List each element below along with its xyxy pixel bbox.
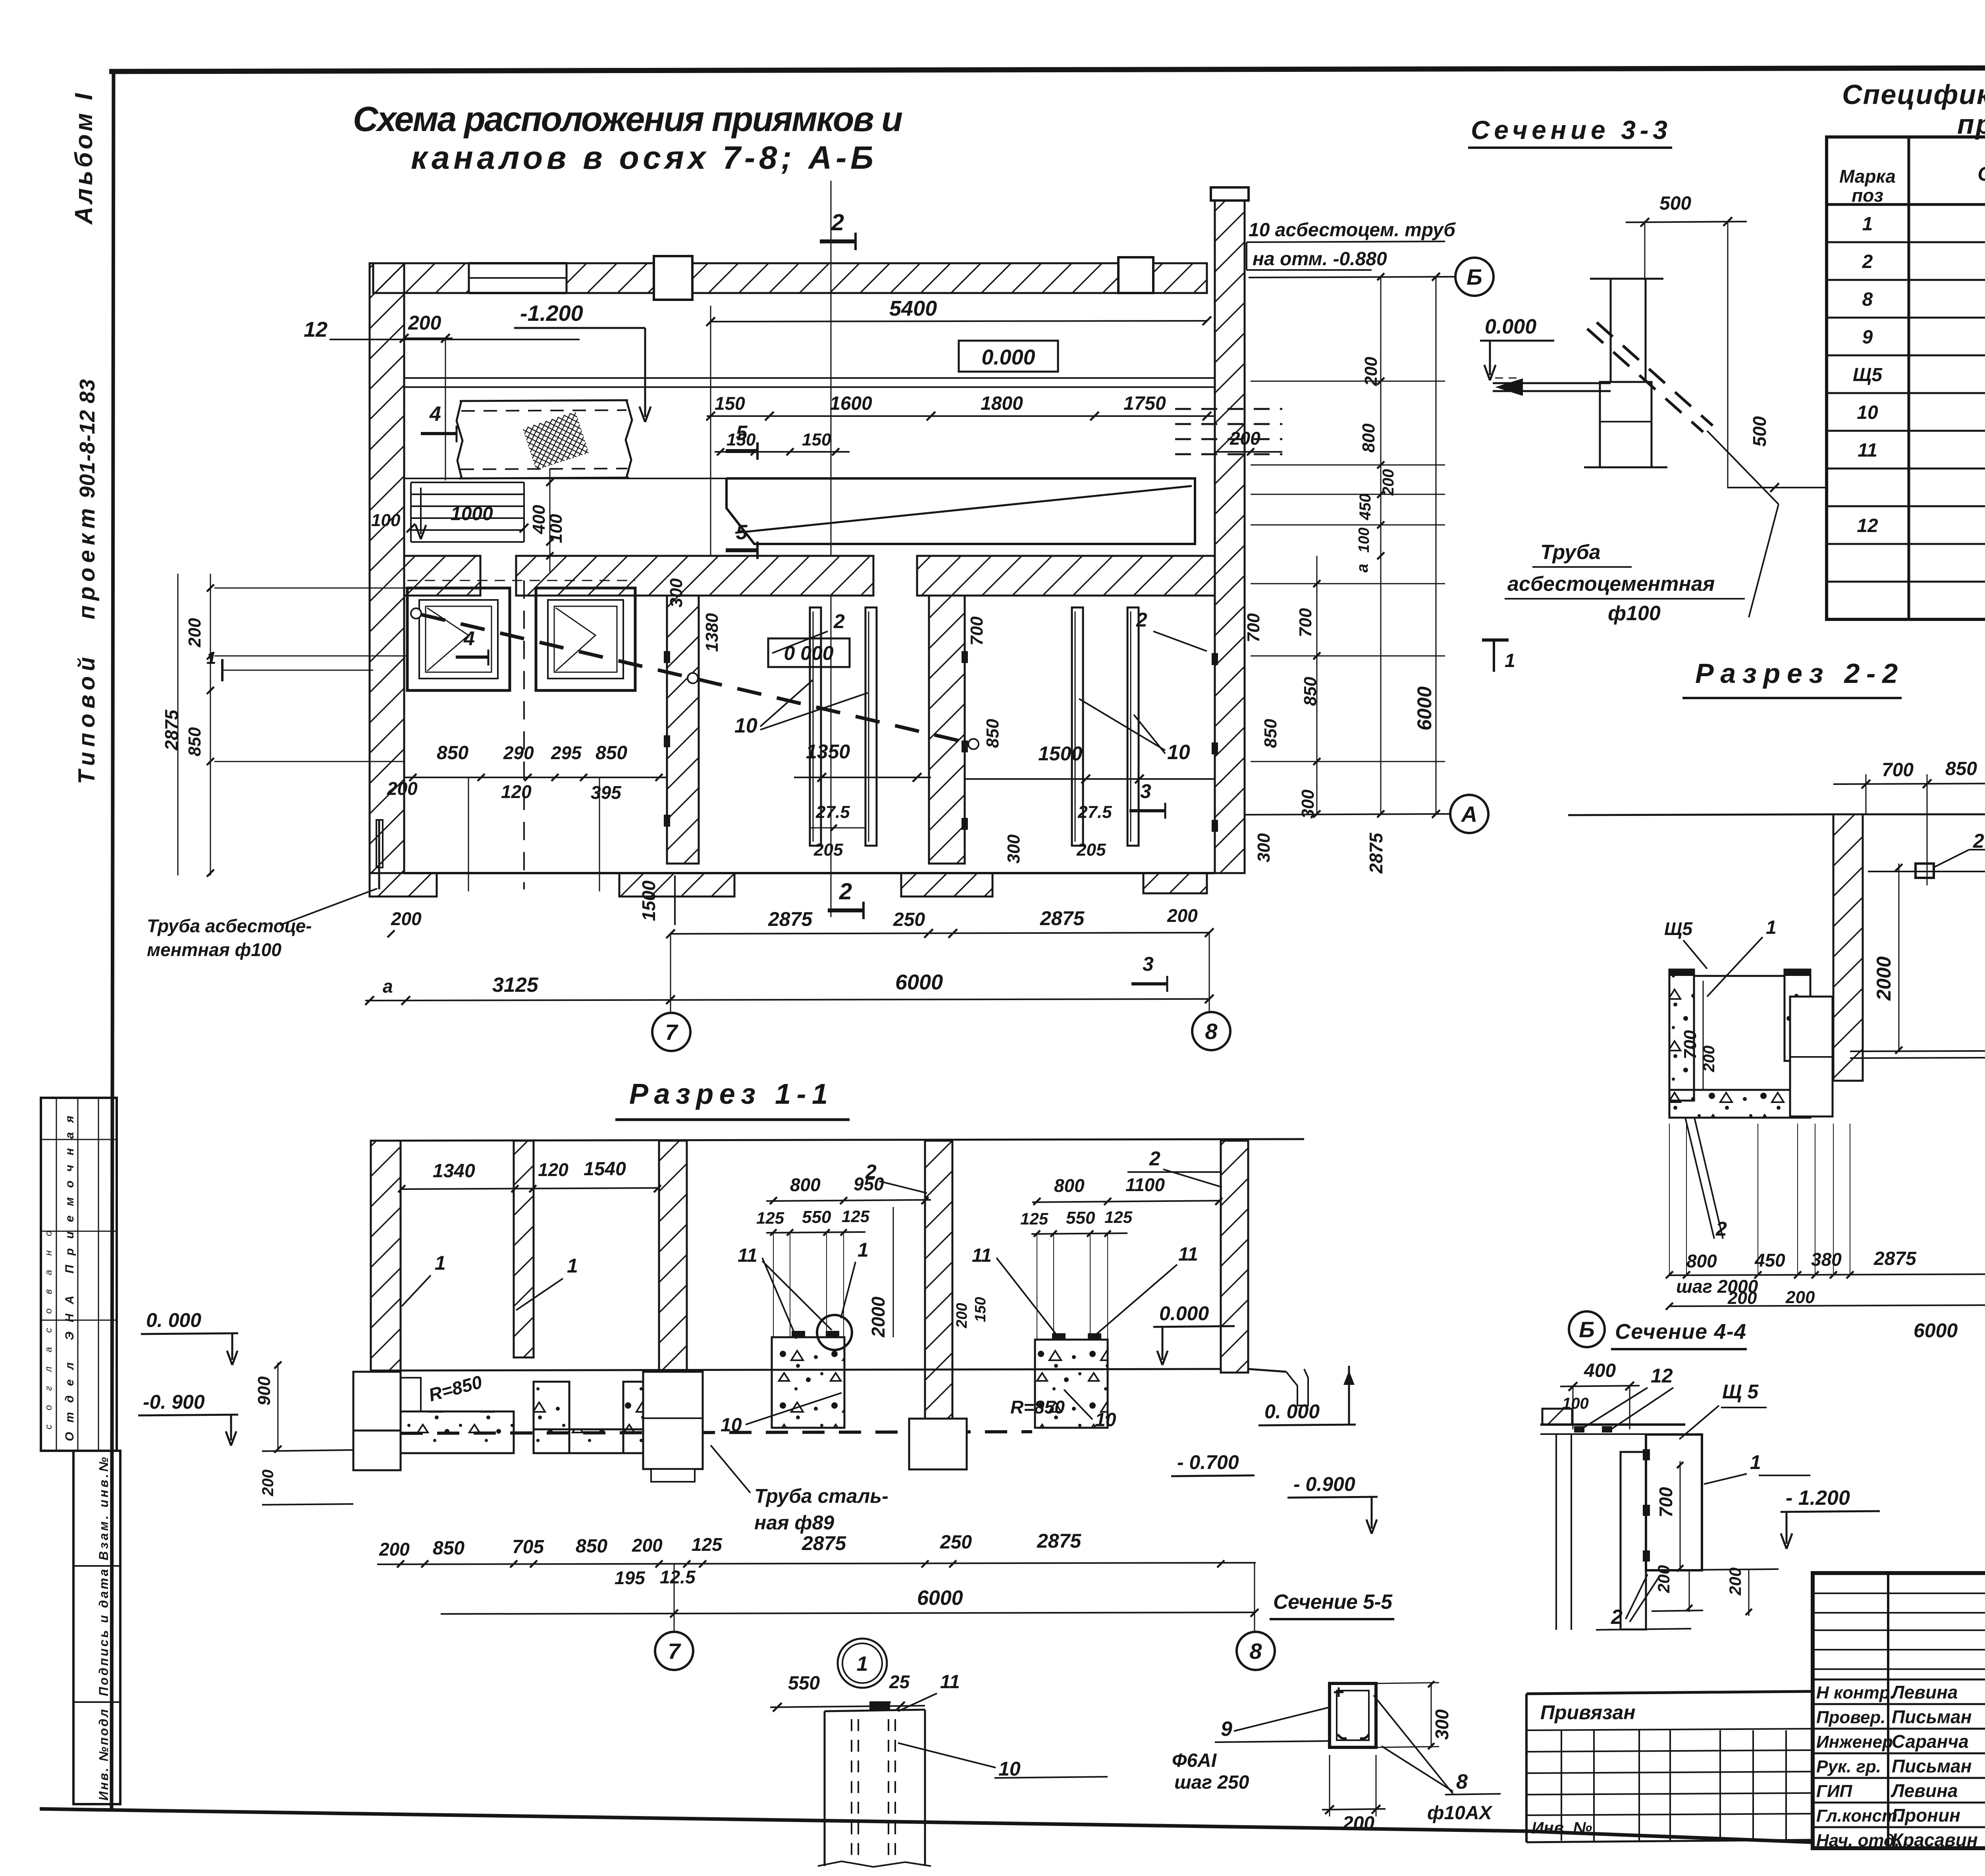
svg-text:Пронин: Пронин — [1892, 1805, 1960, 1826]
svg-text:7: 7 — [668, 1639, 681, 1664]
svg-text:2875: 2875 — [161, 709, 182, 751]
svg-text:550: 550 — [788, 1673, 820, 1694]
svg-text:1500: 1500 — [1038, 742, 1082, 765]
svg-text:195: 195 — [615, 1568, 646, 1588]
svg-text:850: 850 — [983, 719, 1002, 748]
plan: dashed drain diagonal — [411, 608, 421, 619]
svg-text:Рук. гр.: Рук. гр. — [1816, 1757, 1881, 1776]
svg-text:Щ5: Щ5 — [1853, 364, 1883, 386]
svg-text:ментная ф100: ментная ф100 — [147, 939, 281, 960]
plan: corridor inner lines — [404, 377, 1215, 379]
svg-text:700: 700 — [1296, 608, 1315, 637]
svg-text:27.5: 27.5 — [1077, 802, 1112, 822]
svg-text:1800: 1800 — [981, 393, 1023, 414]
svg-text:1: 1 — [567, 1255, 578, 1277]
svg-text:8: 8 — [1205, 1019, 1218, 1044]
svg-text:850: 850 — [433, 1538, 464, 1559]
svg-text:ГИП: ГИП — [1816, 1782, 1853, 1801]
svg-text:11: 11 — [1178, 1244, 1198, 1265]
svg-text:300: 300 — [1432, 1709, 1452, 1740]
section 3-3 dashed pipe diagonal — [1587, 329, 1703, 432]
svg-text:0.000: 0.000 — [981, 345, 1035, 369]
svg-text:5: 5 — [736, 521, 748, 544]
svg-text:200: 200 — [185, 618, 204, 648]
svg-text:1: 1 — [858, 1239, 869, 1261]
item 2 small squares on walls — [664, 651, 670, 663]
svg-text:200: 200 — [1785, 1288, 1815, 1307]
svg-text:2: 2 — [833, 610, 845, 632]
svg-text:1380: 1380 — [702, 613, 722, 652]
razrez 1-1 axis circles — [674, 1564, 675, 1631]
svg-text:Схема расположения приямков: Схема расположения приямков и — [353, 99, 903, 139]
plan: sloped channel — [727, 478, 1195, 544]
razrez 2-2 dim 700 850 — [1833, 783, 1985, 784]
svg-text:Левина: Левина — [1891, 1682, 1958, 1702]
plan: top wall band — [373, 263, 469, 293]
svg-text:850: 850 — [1945, 758, 1977, 779]
svg-text:4: 4 — [463, 627, 475, 650]
svg-text:1: 1 — [1505, 650, 1515, 671]
inventory strip upper box — [41, 1098, 117, 1451]
razrez 1-1 block 2 — [1035, 1340, 1108, 1428]
svg-text:Спецификация к схеме распол: Спецификация к схеме расположения — [1842, 79, 1985, 110]
svg-text:200: 200 — [1342, 1813, 1374, 1834]
svg-text:Левина: Левина — [1891, 1780, 1958, 1801]
axis circles 7 and 8 — [670, 934, 671, 1013]
svg-text:2000: 2000 — [868, 1296, 888, 1338]
svg-text:на отм. -0.880: на отм. -0.880 — [1253, 249, 1387, 270]
svg-text:200: 200 — [1726, 1568, 1744, 1596]
svg-text:100: 100 — [371, 511, 401, 530]
plan: right wall — [1211, 187, 1249, 201]
svg-text:120: 120 — [501, 781, 532, 802]
svg-text:Труба: Труба — [1540, 541, 1601, 564]
svg-text:705: 705 — [512, 1537, 544, 1558]
svg-text:0. 000: 0. 000 — [1264, 1400, 1320, 1423]
plan: partitions — [667, 596, 699, 864]
plan: corridor dim row 1 — [707, 415, 1215, 417]
svg-text:850: 850 — [1301, 677, 1320, 706]
svg-text:2: 2 — [1611, 1606, 1623, 1629]
svg-text:Б: Б — [1579, 1317, 1595, 1342]
svg-text:4: 4 — [429, 403, 441, 426]
svg-text:2: 2 — [1149, 1147, 1160, 1170]
svg-text:шаг 250: шаг 250 — [1174, 1772, 1249, 1793]
svg-text:400: 400 — [529, 505, 549, 534]
svg-text:1750: 1750 — [1124, 393, 1166, 414]
svg-text:10: 10 — [721, 1415, 742, 1436]
svg-text:200: 200 — [954, 1303, 970, 1328]
svg-text:а: а — [383, 976, 393, 997]
svg-text:6000: 6000 — [895, 970, 943, 994]
section 5-5 rebar detail — [1330, 1683, 1376, 1747]
svg-text:2875: 2875 — [1873, 1248, 1917, 1269]
svg-text:700: 700 — [1681, 1030, 1700, 1059]
plan: corridor dim row 2 — [715, 451, 850, 453]
svg-text:2875: 2875 — [802, 1532, 846, 1554]
svg-text:Инженер: Инженер — [1816, 1732, 1893, 1752]
plan: section line 2 vertical — [831, 181, 832, 556]
svg-text:1: 1 — [1862, 214, 1873, 235]
svg-text:205: 205 — [813, 840, 843, 860]
svg-text:27.5: 27.5 — [815, 802, 850, 822]
svg-text:850: 850 — [1261, 719, 1280, 748]
svg-text:300: 300 — [667, 578, 686, 607]
section 4-4 plates — [1540, 1423, 1685, 1426]
section 4-4 title — [1569, 1311, 1605, 1347]
svg-text:Саранча: Саранча — [1892, 1731, 1969, 1752]
svg-text:8: 8 — [1862, 289, 1873, 310]
plan: boxed 0.000 — [959, 341, 1058, 372]
svg-text:Сечение 5-5: Сечение 5-5 — [1273, 1591, 1393, 1614]
svg-text:6000: 6000 — [1914, 1319, 1958, 1342]
svg-text:125: 125 — [756, 1209, 784, 1227]
svg-text:Нач. отд.: Нач. отд. — [1816, 1831, 1900, 1850]
svg-text:700: 700 — [1655, 1487, 1676, 1517]
razrez 1-1 top line — [371, 1139, 1304, 1141]
section 3-3 truba label — [1707, 431, 1779, 504]
svg-text:290: 290 — [503, 742, 534, 763]
svg-text:200: 200 — [259, 1469, 277, 1496]
svg-text:9: 9 — [1862, 327, 1873, 348]
razrez 2-2 left wall — [1833, 814, 1863, 1081]
svg-text:500: 500 — [1749, 416, 1770, 447]
svg-text:25: 25 — [889, 1672, 910, 1692]
svg-text:950: 950 — [854, 1174, 884, 1194]
plan: window squares — [407, 588, 510, 690]
svg-text:200: 200 — [408, 312, 441, 334]
svg-text:850: 850 — [437, 742, 468, 764]
svg-text:200: 200 — [632, 1535, 663, 1556]
svg-text:поз: поз — [1852, 185, 1883, 206]
svg-text:11: 11 — [738, 1245, 757, 1266]
svg-text:125: 125 — [842, 1207, 870, 1226]
svg-text:Труба сталь-: Труба сталь- — [754, 1485, 888, 1507]
svg-text:200: 200 — [391, 908, 422, 929]
svg-text:10: 10 — [1095, 1409, 1116, 1431]
svg-text:9: 9 — [1221, 1718, 1232, 1741]
title block outer — [1813, 1573, 1985, 1848]
svg-text:Инв. №подл: Инв. №подл — [96, 1709, 111, 1801]
svg-text:Письман: Письман — [1892, 1756, 1972, 1776]
razrez 2-2 item 2 squares — [1916, 864, 1934, 878]
svg-text:Н контр.: Н контр. — [1816, 1683, 1895, 1702]
svg-text:400: 400 — [1584, 1360, 1616, 1381]
svg-text:Провер.: Провер. — [1816, 1708, 1885, 1727]
svg-text:асбестоцементная: асбестоцементная — [1507, 573, 1715, 596]
svg-text:А: А — [1461, 802, 1477, 827]
svg-text:800: 800 — [1686, 1251, 1717, 1271]
svg-text:450: 450 — [1754, 1250, 1785, 1271]
plan: left wall — [370, 263, 404, 873]
razrez 1-1 mid channel — [534, 1382, 569, 1453]
svg-text:Разрез 1-1: Разрез 1-1 — [629, 1078, 828, 1110]
svg-text:200: 200 — [379, 1539, 410, 1560]
svg-text:100: 100 — [1356, 528, 1372, 553]
svg-text:550: 550 — [1066, 1208, 1095, 1228]
svg-text:Ф6АI: Ф6АI — [1172, 1750, 1217, 1771]
svg-text:ная ф89: ная ф89 — [754, 1512, 834, 1534]
svg-text:380: 380 — [1811, 1249, 1842, 1270]
svg-text:Разрез 2-2: Разрез 2-2 — [1695, 658, 1898, 689]
svg-text:1: 1 — [857, 1652, 868, 1675]
section 3-3 pipe lines — [1493, 382, 1611, 384]
svg-text:12: 12 — [1651, 1365, 1673, 1387]
svg-text:6000: 6000 — [917, 1587, 963, 1610]
svg-text:10: 10 — [998, 1758, 1021, 1780]
plan: middle wall band — [404, 556, 480, 596]
svg-text:150: 150 — [715, 393, 745, 414]
svg-text:500: 500 — [1659, 193, 1691, 214]
svg-text:11: 11 — [940, 1672, 960, 1693]
plan: bottom footings — [370, 873, 437, 897]
plan: room channels — [810, 607, 821, 846]
svg-text:125: 125 — [1104, 1208, 1133, 1226]
razrez 1-1 floor — [370, 1369, 1221, 1371]
svg-text:8: 8 — [1249, 1639, 1262, 1664]
svg-text:- 0.700: - 0.700 — [1177, 1451, 1239, 1473]
razrez 1-1 walls — [371, 1141, 401, 1463]
svg-text:200: 200 — [1380, 469, 1397, 496]
svg-text:550: 550 — [802, 1207, 831, 1227]
svg-text:12: 12 — [1857, 515, 1878, 536]
svg-text:2: 2 — [839, 879, 852, 904]
svg-text:250: 250 — [893, 909, 925, 930]
razrez 2-2 bottom dims row2 — [1669, 1305, 1985, 1306]
svg-text:1600: 1600 — [830, 393, 872, 414]
plan: crosshatch patch — [522, 411, 589, 470]
svg-text:300: 300 — [1254, 833, 1274, 862]
svg-text:2: 2 — [1136, 609, 1147, 631]
razrez 1-1 block 1 — [772, 1337, 844, 1428]
svg-text:Письман: Письман — [1892, 1706, 1972, 1727]
svg-text:5: 5 — [736, 422, 748, 445]
svg-text:11: 11 — [972, 1245, 992, 1266]
svg-text:800: 800 — [1359, 423, 1378, 453]
svg-text:150: 150 — [802, 430, 831, 449]
section line 1 left — [222, 670, 373, 671]
plan: pilaster stubs on top wall — [654, 256, 692, 300]
svg-text:1340: 1340 — [433, 1161, 475, 1182]
svg-text:800: 800 — [1054, 1175, 1085, 1196]
svg-text:1: 1 — [1766, 917, 1777, 938]
plan: dashed pipe stubs right — [1175, 408, 1282, 410]
svg-text:12.5: 12.5 — [660, 1567, 696, 1587]
svg-text:1: 1 — [1750, 1451, 1761, 1473]
plan: stair element — [411, 482, 524, 483]
svg-text:R=850: R=850 — [1010, 1397, 1065, 1417]
svg-text:1540: 1540 — [584, 1159, 626, 1180]
svg-text:2: 2 — [1862, 251, 1873, 272]
title block signature table — [1887, 1573, 1889, 1848]
svg-text:1: 1 — [206, 648, 216, 668]
svg-text:10: 10 — [1167, 741, 1190, 764]
svg-text:2000: 2000 — [1873, 956, 1895, 1001]
svg-text:6000: 6000 — [1413, 686, 1436, 731]
svg-text:- 1.200: - 1.200 — [1786, 1487, 1850, 1510]
svg-text:2875: 2875 — [1037, 1530, 1081, 1552]
privyazan table — [1526, 1691, 1813, 1694]
svg-text:250: 250 — [940, 1532, 972, 1553]
svg-text:3: 3 — [1143, 953, 1154, 975]
svg-text:2875: 2875 — [768, 908, 813, 930]
svg-text:11: 11 — [1858, 440, 1877, 461]
svg-text:- 0.900: - 0.900 — [1293, 1473, 1355, 1495]
svg-text:1000: 1000 — [451, 503, 493, 524]
svg-text:125: 125 — [1020, 1209, 1048, 1228]
right dim chains — [1380, 277, 1382, 815]
svg-text:200: 200 — [387, 778, 418, 799]
svg-text:7: 7 — [665, 1020, 678, 1045]
section 4-4 panel — [1621, 1452, 1646, 1629]
svg-text:100: 100 — [546, 514, 566, 543]
svg-text:850: 850 — [576, 1536, 607, 1557]
svg-text:200: 200 — [1727, 1288, 1757, 1308]
svg-text:1350: 1350 — [806, 740, 850, 763]
svg-text:-0. 900: -0. 900 — [143, 1391, 205, 1413]
razrez 1-1 left pit — [353, 1372, 401, 1431]
svg-text:300: 300 — [1004, 834, 1023, 864]
svg-text:5400: 5400 — [889, 297, 937, 320]
svg-text:850: 850 — [185, 727, 204, 756]
svg-text:150: 150 — [972, 1297, 989, 1322]
svg-text:901-8-12 83: 901-8-12 83 — [75, 379, 99, 498]
svg-text:395: 395 — [591, 782, 622, 803]
svg-text:3: 3 — [1140, 780, 1151, 802]
razrez 1-1 6000 row — [441, 1612, 1256, 1614]
svg-text:450: 450 — [1357, 494, 1374, 521]
svg-text:2: 2 — [1973, 830, 1984, 852]
section 5-5 trench — [824, 1711, 826, 1866]
svg-text:Гл.конст.: Гл.конст. — [1816, 1806, 1902, 1826]
razrez 1-1 footing under wall3 — [643, 1372, 703, 1469]
svg-text:2875: 2875 — [1366, 832, 1386, 874]
svg-text:Б: Б — [1467, 264, 1482, 289]
svg-text:3125: 3125 — [492, 974, 539, 997]
plan: wavy pipe element — [457, 401, 463, 478]
svg-text:Щ5: Щ5 — [1664, 918, 1693, 939]
svg-text:1500: 1500 — [638, 880, 659, 921]
razrez 2-2 floor lines — [1850, 1051, 1985, 1051]
svg-text:8: 8 — [1456, 1770, 1468, 1793]
plan: bottom edge line — [404, 872, 1215, 874]
svg-text:900: 900 — [254, 1376, 274, 1406]
svg-text:12: 12 — [304, 318, 328, 341]
svg-text:Марка: Марка — [1839, 166, 1896, 187]
plan: boxed 0.000 room — [768, 638, 850, 667]
section 3-3 column — [1590, 278, 1663, 280]
spec table — [1827, 137, 1985, 619]
svg-text:-1.200: -1.200 — [520, 301, 583, 326]
svg-text:приямков и каналов: приямков и каналов — [1957, 109, 1985, 140]
svg-text:Привязан: Привязан — [1540, 1701, 1636, 1724]
svg-text:1100: 1100 — [1125, 1174, 1165, 1195]
inventory strip lower box — [73, 1451, 120, 1804]
svg-text:ф10АX: ф10АX — [1427, 1803, 1493, 1824]
svg-text:а: а — [1354, 564, 1371, 573]
svg-text:Щ 5: Щ 5 — [1722, 1380, 1759, 1403]
sheet frame — [109, 67, 1985, 71]
svg-text:700: 700 — [1244, 613, 1263, 642]
svg-text:1: 1 — [435, 1252, 446, 1274]
razrez 2-2 bottom dims row1 — [1669, 1274, 1985, 1275]
svg-text:300: 300 — [1298, 789, 1318, 819]
razrez 2-2 ground line — [1568, 814, 1833, 815]
svg-text:10: 10 — [734, 714, 757, 737]
axis B circle — [1249, 277, 1455, 278]
razrez 1-1 detail circle 1 — [817, 1315, 852, 1350]
svg-text:700: 700 — [967, 616, 987, 646]
svg-text:0. 000: 0. 000 — [146, 1309, 201, 1331]
svg-text:10: 10 — [1857, 402, 1878, 423]
razrez 2-2 left channel — [1669, 970, 1694, 1101]
svg-text:120: 120 — [538, 1159, 569, 1180]
svg-text:850: 850 — [595, 742, 627, 764]
left outside dim chain — [210, 574, 211, 875]
svg-text:10 асбестоцем. труб: 10 асбестоцем. труб — [1249, 220, 1456, 241]
svg-text:125: 125 — [692, 1534, 723, 1555]
svg-text:0.000: 0.000 — [1159, 1302, 1209, 1325]
svg-text:Красавин: Красавин — [1892, 1830, 1978, 1850]
section 5-5 circle 1 — [838, 1639, 887, 1688]
svg-text:295: 295 — [551, 742, 582, 763]
svg-text:Обозначение: Обозначение — [1977, 163, 1985, 185]
svg-text:Инв. №: Инв. № — [1532, 1818, 1592, 1837]
axis A circle — [1245, 814, 1450, 815]
svg-text:800: 800 — [790, 1174, 821, 1195]
svg-text:0.000: 0.000 — [1485, 315, 1536, 338]
svg-text:2: 2 — [831, 210, 844, 235]
svg-text:Труба асбестоце-: Труба асбестоце- — [147, 916, 312, 936]
plan bottom dim row 2875-250-2875 — [671, 933, 1210, 934]
svg-text:ф100: ф100 — [1608, 602, 1661, 625]
svg-text:205: 205 — [1076, 840, 1106, 860]
svg-text:2875: 2875 — [1040, 907, 1085, 929]
svg-text:Сечение 4-4: Сечение 4-4 — [1615, 1320, 1746, 1344]
svg-text:700: 700 — [1882, 760, 1914, 781]
svg-text:200: 200 — [1167, 905, 1198, 926]
svg-text:200: 200 — [1361, 357, 1381, 386]
razrez 1-1 footing under wall4 — [909, 1419, 967, 1469]
razrez 1-1 bottom dim row — [377, 1563, 1256, 1564]
plan bottom dim row 3125-6000 — [365, 999, 1210, 1001]
